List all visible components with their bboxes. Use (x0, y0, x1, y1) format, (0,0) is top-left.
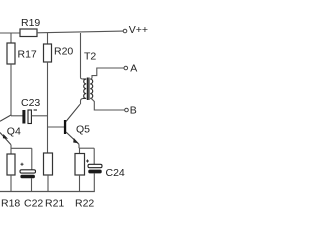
svg-text:R17: R17 (18, 49, 37, 61)
node A terminal (124, 63, 137, 75)
svg-text:Q4: Q4 (7, 126, 21, 138)
capacitor C24 (86, 148, 125, 179)
wire R18 node branch to C22 (11, 147, 32, 149)
wire Q5 base lead (48, 126, 65, 128)
svg-text:R20: R20 (54, 46, 73, 58)
node V++ terminal (123, 24, 148, 36)
wire R17 bottom to Q4 collector node (10, 64, 12, 116)
wire R20 bottom down to base node (47, 62, 49, 153)
svg-text:R22: R22 (75, 198, 94, 210)
node B terminal (125, 104, 137, 116)
transistor Q5 (64, 104, 90, 144)
wire C24 bottom lead (93, 173, 95, 191)
wire Q5 emitter down to R22 node (78, 144, 80, 148)
svg-text:C23: C23 (21, 97, 40, 109)
wire C22 bottom lead (31, 178, 33, 191)
svg-text:R21: R21 (45, 198, 64, 210)
wire R21 bottom lead (47, 175, 49, 192)
resistor R22 (75, 154, 85, 176)
secondary top lead (90, 68, 124, 79)
resistor R17 (7, 43, 37, 64)
svg-text:R19: R19 (21, 17, 40, 29)
wire R22 bottom lead (79, 175, 81, 192)
wire top rail left stub (0, 32, 20, 34)
svg-text:T2: T2 (84, 51, 96, 63)
wire R17 top lead (10, 33, 12, 43)
primary bottom lead to Q5 collector (81, 98, 84, 104)
wire R18 bottom lead (10, 175, 12, 192)
resistor R19 (20, 17, 40, 37)
primary winding (83, 79, 86, 98)
svg-text:Q5: Q5 (76, 123, 90, 135)
svg-text:R18: R18 (1, 198, 20, 210)
wire Q4 emitter down to R18 node (10, 145, 12, 154)
core lines (86, 78, 88, 101)
wire R22 top lead (79, 148, 81, 153)
resistor R20 (44, 44, 74, 62)
wire emitter node branch to C24 (79, 147, 94, 149)
wire C22 top lead (31, 148, 33, 170)
svg-text:B: B (130, 104, 137, 116)
secondary bottom lead (90, 98, 124, 110)
wire R20 top lead (47, 33, 49, 44)
primary top connector (83, 78, 86, 80)
svg-text:A: A (130, 63, 137, 75)
svg-text:C22: C22 (24, 198, 43, 210)
resistor R21 (44, 153, 53, 175)
wire ground rail (0, 191, 95, 193)
wire C23 left lead (11, 115, 23, 117)
transistor Q4 (partial, body off left edge) (0, 115, 21, 145)
resistor R18 (7, 154, 15, 175)
wire C23 right lead (32, 115, 48, 117)
svg-text:C24: C24 (106, 167, 125, 179)
secondary winding (90, 79, 93, 98)
capacitor C22 (20, 163, 36, 179)
transformer T2 (81, 33, 125, 110)
wire top rail to V++ (37, 31, 123, 33)
capacitor C23 (21, 97, 40, 124)
primary top lead (81, 33, 84, 79)
svg-text:V++: V++ (129, 24, 148, 36)
